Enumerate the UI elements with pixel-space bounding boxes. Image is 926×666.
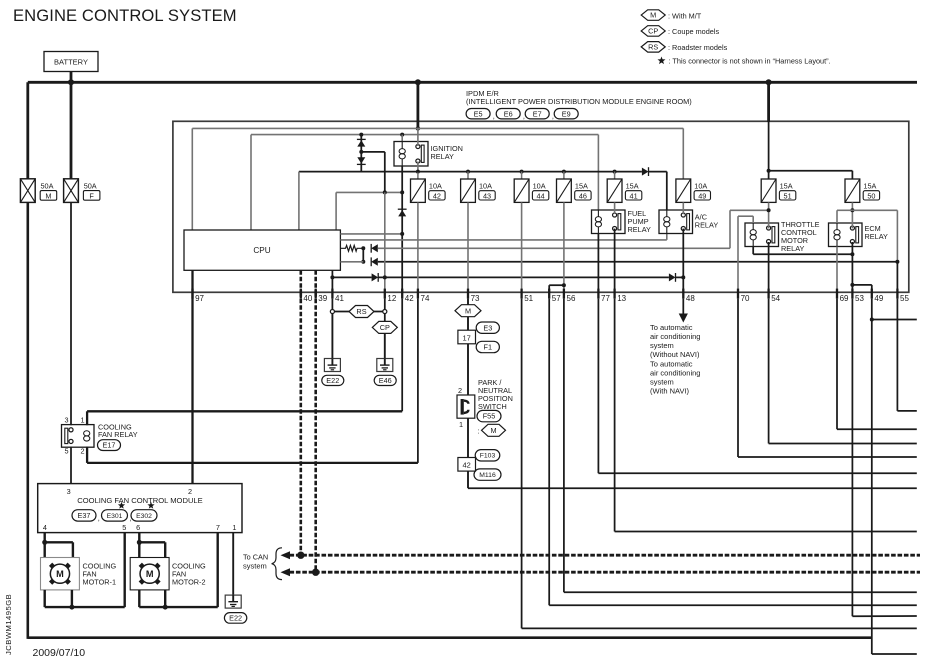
connector E46 — [374, 375, 396, 385]
legend hexagon CP — [641, 26, 665, 37]
svg-text:: Roadster models: : Roadster models — [668, 43, 728, 52]
wire pin 40 CAN dashed — [299, 292, 302, 555]
svg-text:74: 74 — [421, 294, 430, 303]
wire fuse50 to ECM coil — [837, 209, 852, 211]
pin 53 — [851, 289, 853, 299]
pin 40 — [300, 289, 302, 299]
svg-text:F: F — [89, 191, 94, 200]
svg-text:F103: F103 — [480, 453, 496, 460]
svg-text:73: 73 — [471, 294, 480, 303]
svg-text:15A: 15A — [575, 181, 588, 190]
svg-text:17: 17 — [463, 333, 471, 342]
wire R5 horizontal — [332, 276, 371, 278]
svg-text:CP: CP — [648, 27, 658, 36]
svg-text:system: system — [650, 341, 674, 350]
svg-text:3: 3 — [64, 415, 68, 424]
svg-text:10A: 10A — [694, 181, 707, 190]
wire CAN line 2 dashed — [290, 571, 921, 574]
svg-text:E17: E17 — [103, 441, 116, 450]
wire R1 CPU to ignition coil return — [340, 233, 402, 235]
wire 17 to PNP switch — [467, 344, 469, 395]
pin 49 — [871, 289, 873, 299]
IPDM E/R box — [173, 121, 909, 292]
node R5 branch — [330, 275, 334, 279]
arrow CAN 2 — [281, 568, 291, 576]
wire motor 2 return to module pin 7 — [138, 590, 140, 607]
hexagon RS — [349, 306, 374, 318]
wire fuse 50 node — [851, 202, 853, 228]
wire pin 69 long — [836, 299, 838, 430]
connector E6 — [496, 109, 520, 119]
legend star note — [658, 57, 666, 65]
wire ignition relay contact feed — [417, 128, 419, 146]
pin 56 — [563, 289, 565, 299]
fuse 15A [46] — [557, 179, 592, 202]
wire CAN line 1 dashed — [290, 554, 921, 557]
svg-text:51: 51 — [784, 191, 792, 200]
wire CP to ground E46 — [384, 333, 386, 358]
pin 42 — [401, 289, 403, 299]
wire pin 13 long — [614, 299, 616, 532]
pin 73 — [467, 289, 469, 299]
svg-text:7: 7 — [216, 523, 220, 532]
joint circle pin12 — [383, 309, 387, 313]
svg-text:(INTELLIGENT POWER DISTRIBUTIO: (INTELLIGENT POWER DISTRIBUTION MODULE E… — [466, 97, 692, 106]
svg-text:10A: 10A — [429, 181, 442, 190]
svg-text:44: 44 — [537, 191, 545, 200]
node fuse 44 top — [520, 170, 524, 174]
svg-text:air conditioning: air conditioning — [650, 332, 700, 341]
svg-text:COOLING FAN CONTROL MODULE: COOLING FAN CONTROL MODULE — [77, 496, 202, 505]
svg-text:5: 5 — [64, 447, 68, 456]
park/neutral position switch S1 — [457, 395, 475, 418]
svg-text:97: 97 — [195, 294, 204, 303]
ignition relay U1 — [394, 142, 428, 167]
wire R4 branch vertical — [362, 248, 364, 261]
wire A/C contact to pin 48 — [682, 229, 684, 293]
diode R4 left — [371, 258, 378, 266]
svg-text:12: 12 — [387, 294, 396, 303]
svg-text:,: , — [552, 112, 554, 121]
svg-text:To CAN: To CAN — [243, 553, 268, 562]
ground E22 lower — [225, 595, 241, 608]
node pin 57 branch — [562, 283, 566, 287]
wire pin 55 internal — [896, 262, 898, 293]
node pin12 R5 junction — [383, 275, 387, 279]
pin 70 — [737, 289, 739, 299]
svg-text:2: 2 — [188, 487, 192, 496]
svg-text:M: M — [56, 569, 64, 579]
svg-text:F1: F1 — [484, 343, 493, 352]
node motor1 feed — [42, 540, 47, 545]
svg-text:70: 70 — [741, 294, 750, 303]
wire module pin 1 to ground — [232, 533, 234, 596]
wire pin 53 long — [851, 299, 853, 617]
svg-text:E302: E302 — [136, 513, 152, 520]
svg-text:13: 13 — [617, 294, 626, 303]
connector E5 — [466, 109, 490, 119]
wire R5 CPU pin 41 vertical — [331, 270, 333, 292]
svg-text:42: 42 — [433, 191, 441, 200]
svg-text:1: 1 — [459, 420, 463, 429]
wire main battery bus — [28, 81, 917, 84]
diode stack vertical — [360, 135, 362, 172]
node CAN2 pin39 — [312, 569, 319, 576]
connector E7 — [525, 109, 549, 119]
svg-text:M: M — [650, 11, 656, 20]
node fuse 51 feed — [767, 169, 771, 173]
wire pin 77 long — [597, 299, 599, 474]
wire pin 73 tail to right edge — [467, 471, 469, 488]
connector M116 — [474, 469, 501, 480]
node resistor output — [361, 246, 365, 250]
svg-text:M: M — [465, 306, 471, 315]
connector E301 — [118, 502, 125, 509]
svg-text:54: 54 — [771, 294, 780, 303]
svg-text:M: M — [45, 191, 51, 200]
wire ignition coil bottom to pin 42 — [401, 166, 403, 292]
svg-text:,: , — [98, 514, 100, 523]
svg-text:69: 69 — [840, 294, 849, 303]
wire branch to pin 57 — [549, 284, 564, 286]
wire throttle coil bottom to ECM output — [752, 247, 754, 255]
CPU box — [184, 230, 340, 270]
node ECM output throttle branch — [850, 252, 854, 256]
fusible link 50A F — [64, 179, 79, 203]
pin 51 — [520, 289, 522, 299]
connector E9 — [554, 109, 578, 119]
node fuse 46 top — [562, 170, 566, 174]
wire throttle coil top to pin 70 — [752, 216, 754, 223]
terminal box 17 — [458, 330, 476, 344]
pin 48 — [682, 289, 684, 299]
svg-text:RELAY: RELAY — [865, 232, 889, 241]
node ignition coil bottom junction — [400, 190, 404, 194]
svg-text:RS: RS — [648, 42, 658, 51]
svg-text:,: , — [493, 112, 495, 121]
wire fuse 44 to pin 51 — [521, 202, 523, 292]
cooling fan motor 2 M2 — [130, 558, 169, 590]
svg-text:E301: E301 — [107, 513, 123, 520]
svg-text:42: 42 — [405, 294, 414, 303]
svg-text:4: 4 — [43, 523, 47, 532]
node power junction — [416, 126, 420, 130]
hexagon CP — [372, 321, 397, 333]
cooling fan motor 1 M1 — [41, 558, 80, 590]
connector E302 — [147, 502, 154, 509]
diode R3 left — [371, 244, 378, 252]
svg-text:42: 42 — [463, 461, 471, 470]
wire fuse 42 to pin 74 — [417, 202, 419, 292]
svg-text:E6: E6 — [504, 109, 513, 118]
wire fuse 43 to pin 73 — [467, 202, 469, 292]
throttle control motor relay U4 — [745, 223, 779, 247]
node pin12 line junction — [383, 190, 387, 194]
resistor R on CPU line — [340, 245, 363, 251]
fusible link 50A M — [20, 179, 35, 203]
pin 69 — [836, 289, 838, 299]
diode R5 a — [372, 273, 379, 281]
diode R5 b — [669, 273, 676, 281]
wire R3 to throttle relay node — [378, 247, 730, 249]
pin 54 — [767, 289, 769, 299]
pin 55 — [896, 289, 898, 299]
wire fusible link F to cooling fan relay pin 3 — [70, 202, 72, 425]
wire pin41 joint to ground E22 — [331, 313, 333, 358]
svg-text:55: 55 — [900, 294, 909, 303]
svg-text:ENGINE CONTROL SYSTEM: ENGINE CONTROL SYSTEM — [13, 6, 237, 25]
svg-text:49: 49 — [874, 294, 883, 303]
svg-text:E22: E22 — [326, 376, 339, 385]
svg-text:: With M/T: : With M/T — [668, 11, 702, 20]
svg-text:RELAY: RELAY — [695, 221, 719, 230]
svg-text:10A: 10A — [533, 181, 546, 190]
battery BATTERY — [44, 52, 98, 72]
wire battery drop into IPDM — [416, 82, 419, 128]
node fuse 43 top — [466, 170, 470, 174]
diode fuse row — [642, 168, 649, 176]
diode on pin 42 line — [398, 208, 407, 210]
wire fuse 41 to fuel pump contact — [614, 202, 616, 214]
node diode stack top — [359, 133, 363, 137]
wire pin 55 long — [896, 299, 898, 411]
cooling fan relay K1 — [62, 425, 95, 448]
svg-text:E22: E22 — [229, 614, 242, 623]
svg-text:39: 39 — [318, 294, 327, 303]
wire pin 51 long — [521, 299, 523, 629]
svg-text:1: 1 — [232, 523, 236, 532]
svg-text:56: 56 — [567, 294, 576, 303]
svg-text:: Coupe models: : Coupe models — [668, 27, 719, 36]
svg-text:E5: E5 — [474, 109, 483, 118]
wire fuel pump coil to pin 77 — [597, 234, 599, 293]
wire pin 39 CAN dashed — [314, 292, 317, 572]
wire motor 1 return to module pin 5 — [44, 590, 46, 607]
wire R4 to ECM relay node — [378, 261, 898, 263]
wire R2 CPU to A/C relay coil — [340, 239, 666, 241]
pin 57 — [548, 289, 550, 299]
wire fuse 49 to A/C contact — [682, 202, 684, 214]
wire throttle contact to pin 54 — [768, 242, 770, 292]
wire CPU sense line D — [335, 192, 337, 230]
wire pin 97 to fan module pin 2 — [191, 292, 193, 483]
svg-text:15A: 15A — [626, 181, 639, 190]
svg-text:MOTOR-1: MOTOR-1 — [83, 578, 117, 587]
cooling fan control module box — [38, 484, 242, 533]
legend hexagon RS — [641, 42, 665, 53]
svg-text:RELAY: RELAY — [781, 244, 805, 253]
svg-text:CPU: CPU — [253, 246, 270, 255]
wire pin 57 long — [548, 299, 550, 606]
connector E22 upper — [322, 375, 344, 385]
svg-text:51: 51 — [524, 294, 533, 303]
wire pin 74 to cooling fan relay pin 2 — [417, 299, 419, 463]
svg-text:50A: 50A — [84, 182, 97, 191]
wire pin 12 internal — [384, 192, 386, 292]
node ECM output pin49 branch — [850, 283, 854, 287]
svg-text:2009/07/10: 2009/07/10 — [33, 647, 86, 659]
wire battery bottom run — [28, 636, 872, 639]
hexagon M on pin 73 — [455, 305, 481, 317]
svg-text:air conditioning: air conditioning — [650, 369, 700, 378]
svg-text:SWITCH: SWITCH — [478, 402, 507, 411]
node fuse 41 top — [613, 170, 617, 174]
fuse 15A [50] — [845, 179, 880, 202]
svg-text:: This connector is not shown: : This connector is not shown in “Harnes… — [669, 57, 831, 66]
svg-text:RS: RS — [356, 307, 366, 316]
svg-text:To automatic: To automatic — [650, 360, 693, 369]
wire module pin 6 to motor 2 — [138, 533, 140, 558]
svg-text:1: 1 — [80, 415, 84, 424]
fuse 15A [51] — [761, 179, 796, 202]
svg-text:5: 5 — [122, 523, 126, 532]
fuse 10A [44] — [514, 179, 549, 202]
svg-text:(With NAVI): (With NAVI) — [650, 387, 690, 396]
svg-text:BATTERY: BATTERY — [54, 57, 88, 66]
svg-text:FAN RELAY: FAN RELAY — [98, 430, 138, 439]
connector F55 — [477, 410, 501, 421]
pin 12 — [384, 289, 386, 299]
svg-text:50: 50 — [867, 191, 875, 200]
svg-text:2: 2 — [458, 386, 462, 395]
node pin 49 branch — [870, 318, 874, 322]
pin 39 — [315, 289, 317, 299]
fuse 10A [42] — [411, 179, 446, 202]
node battery bus junction 3 — [766, 79, 772, 85]
pin 77 — [597, 289, 599, 299]
wire ECM coil to pin 69 — [836, 247, 838, 293]
svg-text:2: 2 — [80, 447, 84, 456]
wire pin 54 long — [768, 299, 770, 444]
svg-text:F55: F55 — [483, 412, 496, 421]
svg-text:77: 77 — [601, 294, 610, 303]
connector E37 — [72, 510, 96, 521]
wire RS to pin12 joint — [374, 311, 383, 313]
wire pin 73 chain — [467, 299, 469, 305]
pin 41 — [331, 289, 333, 299]
svg-text:15A: 15A — [780, 181, 793, 190]
wire relay pin 5 to module pin 3 — [70, 447, 72, 484]
joint circle pin41 — [330, 309, 334, 313]
wire joint to CP hexagon — [384, 313, 386, 321]
svg-text:E9: E9 — [562, 109, 571, 118]
wire pin 12 to joint — [384, 299, 386, 310]
svg-text::: : — [478, 426, 480, 435]
svg-text:41: 41 — [630, 191, 638, 200]
svg-text:,: , — [523, 112, 525, 121]
terminal box 42 — [458, 458, 476, 472]
wire battery drop to fuses 51 50 — [767, 82, 770, 122]
svg-text:3: 3 — [67, 487, 71, 496]
svg-text:M: M — [146, 569, 154, 579]
svg-text:53: 53 — [855, 294, 864, 303]
ground E22 upper — [324, 359, 340, 372]
connector E22 lower — [224, 613, 246, 624]
wire joint to RS — [334, 311, 349, 313]
fuel pump relay U2 — [592, 210, 626, 234]
node battery bus junction 1 — [68, 79, 74, 85]
svg-text:41: 41 — [335, 294, 344, 303]
svg-text:43: 43 — [483, 191, 491, 200]
wire CPU pins 40 39 dashed start — [299, 270, 302, 292]
svg-text:15A: 15A — [863, 181, 876, 190]
svg-text:50A: 50A — [41, 182, 54, 191]
wire bus down to fusible link M — [26, 82, 29, 179]
node R4 branch — [361, 260, 365, 264]
node fuse 51 output — [767, 208, 771, 212]
svg-text:40: 40 — [303, 294, 312, 303]
svg-text:(Without NAVI): (Without NAVI) — [650, 350, 700, 359]
node motor2 feed — [137, 540, 142, 545]
connector F103 — [475, 450, 500, 461]
svg-text:RELAY: RELAY — [431, 152, 455, 161]
wire CPU coil-drive line — [250, 135, 252, 230]
diode D2 down — [357, 157, 365, 163]
wire pin 48 arrow — [682, 299, 684, 314]
node CAN1 pin40 — [297, 552, 304, 559]
wire CPU to pin 97 — [191, 270, 193, 292]
node fuse 50 output — [850, 208, 854, 212]
wire PNP to box 42 — [467, 418, 469, 457]
A/C relay U3 — [659, 210, 693, 234]
diode D1 up — [357, 138, 366, 140]
wire fuse50 node to R4 node — [852, 209, 897, 211]
fuse 15A [41] — [607, 179, 642, 202]
node ignition coil top — [400, 133, 404, 137]
wire pin 41 to ground joint — [331, 299, 333, 310]
node diode stack middle — [359, 150, 363, 154]
wire switched fuse row — [299, 171, 642, 173]
wire battery to bus — [70, 72, 73, 180]
node battery bus junction 2 — [415, 79, 421, 85]
wire pin 49 long — [871, 299, 873, 654]
wire fuse 51 to throttle contact — [768, 202, 770, 228]
svg-text:E37: E37 — [78, 511, 91, 520]
arrow CAN 1 — [281, 551, 291, 559]
wire branch to pin 49 — [852, 284, 871, 286]
svg-text:57: 57 — [552, 294, 561, 303]
wire diode mid branch to pin 12 line — [361, 151, 385, 153]
wire pin 56 long — [563, 299, 565, 593]
svg-text:10A: 10A — [479, 181, 492, 190]
connector F1 — [476, 341, 499, 352]
wire pin 70 long — [737, 299, 739, 457]
pin 97 — [191, 289, 193, 299]
svg-text:To automatic: To automatic — [650, 323, 693, 332]
wire internal power line — [192, 127, 683, 129]
node R5 to pin 48 line — [681, 275, 685, 279]
wire fuel pump contact to pin 13 — [614, 229, 616, 293]
connector E17 — [98, 440, 121, 451]
svg-text:E7: E7 — [533, 109, 542, 118]
connector E3 — [476, 322, 499, 333]
wire pin 42 to cooling fan relay pin 1 — [401, 299, 403, 412]
svg-text:JCBWM1495GB: JCBWM1495GB — [4, 594, 13, 655]
svg-text:CP: CP — [380, 323, 390, 332]
svg-text:48: 48 — [686, 294, 695, 303]
brace CAN — [272, 548, 282, 580]
legend hexagon M — [641, 10, 665, 20]
node R4 ECM junction — [895, 260, 899, 264]
wire fuse 46 to pin 56 — [563, 202, 565, 292]
svg-text:46: 46 — [579, 191, 587, 200]
fuse 10A [43] — [461, 179, 496, 202]
svg-text:RELAY: RELAY — [628, 225, 652, 234]
fuse 10A [49] — [676, 179, 711, 202]
ECM relay U5 — [829, 223, 863, 247]
svg-text:system: system — [650, 378, 674, 387]
ground E46 — [377, 359, 393, 372]
